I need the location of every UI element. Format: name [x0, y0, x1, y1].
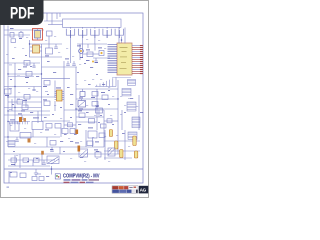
- wire: [29, 56, 62, 58]
- wire: [77, 43, 107, 45]
- resistor R22: [45, 44, 53, 56]
- connector J7: [122, 89, 131, 96]
- resistor R7: [43, 81, 50, 87]
- capacitor C19: [109, 130, 112, 137]
- wire: [8, 75, 34, 77]
- node G: [75, 108, 76, 109]
- IC U2: [117, 43, 132, 75]
- wire: [92, 138, 94, 147]
- wire: [104, 120, 118, 122]
- net labels: [7, 187, 10, 188]
- capacitor C1: [10, 28, 14, 37]
- resistor R18: [11, 158, 17, 165]
- wire: [60, 128, 62, 137]
- wire: [117, 80, 119, 154]
- resistor R2: [23, 61, 30, 68]
- resistor R11: [86, 50, 93, 57]
- resistor R33: [11, 39, 16, 43]
- connector J4: [103, 27, 111, 38]
- wire: [124, 28, 126, 44]
- transistor Q3: [78, 99, 86, 109]
- wire: [104, 140, 140, 142]
- resistor R4: [5, 89, 12, 96]
- resistor R28: [34, 158, 40, 162]
- resistor R5: [23, 95, 30, 101]
- wire: [8, 146, 104, 148]
- capacitor C15: [42, 160, 46, 164]
- wire: [8, 110, 50, 112]
- logo: [139, 186, 148, 194]
- node K: [7, 121, 8, 122]
- wire: [79, 44, 81, 60]
- node H: [7, 136, 8, 137]
- wire: [76, 116, 104, 118]
- resistor R27: [107, 119, 112, 123]
- transformer T2: [108, 148, 115, 156]
- wire: [8, 96, 55, 98]
- connector J9: [132, 117, 140, 128]
- wire: [124, 130, 126, 160]
- connector bank box: [63, 19, 122, 27]
- wire: [41, 154, 43, 165]
- node B: [7, 73, 8, 74]
- wire: [76, 108, 118, 110]
- resistor R30: [50, 141, 56, 146]
- fuse F1: [18, 114, 26, 123]
- resistor R20: [10, 172, 17, 177]
- diode D3: [28, 139, 31, 143]
- wire: [25, 99, 27, 108]
- wire: [4, 34, 30, 36]
- resistor R8: [43, 100, 50, 106]
- connector J2: [79, 27, 87, 38]
- wire: [59, 147, 61, 154]
- reference designators: [10, 55, 143, 177]
- transistor Q4: [77, 46, 83, 54]
- capacitor C8: [72, 61, 76, 65]
- node J: [14, 107, 15, 108]
- transistor Q1: [35, 29, 41, 41]
- subtitle text: [64, 182, 94, 183]
- wire: [64, 109, 104, 111]
- wire: [14, 155, 16, 166]
- wire: [104, 157, 132, 159]
- wire: [76, 121, 97, 123]
- wire: [93, 57, 110, 59]
- PDF badge: [0, 0, 44, 25]
- wire: [75, 67, 77, 130]
- connector J1: [66, 27, 74, 38]
- inductor L1: [10, 120, 19, 132]
- wire: [76, 98, 118, 100]
- capacitor C10: [62, 129, 75, 134]
- connector J8: [127, 102, 136, 111]
- wire: [51, 166, 53, 175]
- wire: [4, 107, 42, 109]
- resistor R10: [55, 124, 61, 129]
- capacitor C3: [54, 44, 58, 48]
- wire: [4, 29, 44, 31]
- IC U6: [88, 128, 97, 139]
- capacitor C11: [115, 141, 118, 149]
- capacitor C14: [134, 151, 137, 158]
- node I: [7, 110, 8, 111]
- wire: [4, 62, 40, 64]
- IC U5: [32, 118, 43, 130]
- wire: [42, 78, 71, 80]
- wire: [54, 81, 56, 98]
- resistor R1: [19, 33, 23, 39]
- pin numbers: [132, 45, 143, 74]
- wire: [4, 136, 60, 138]
- wire: [32, 160, 34, 166]
- wire: [96, 89, 98, 130]
- pin numbers: [108, 45, 118, 73]
- transformer T3: [79, 149, 88, 157]
- wire: [4, 114, 50, 116]
- resistor R24: [89, 119, 95, 124]
- capacitor C9: [94, 58, 98, 62]
- wire: [29, 43, 62, 45]
- resistor R9: [45, 124, 52, 131]
- wire: [94, 44, 96, 51]
- connector J5: [115, 27, 123, 38]
- resistor R34: [101, 124, 107, 128]
- bus taps: [8, 122, 30, 125]
- wire: [104, 130, 106, 160]
- resistor R23: [78, 111, 85, 118]
- wire: [46, 13, 48, 21]
- wire: [42, 120, 71, 122]
- wire: [76, 88, 118, 90]
- resistor R3: [25, 72, 32, 78]
- wire: [85, 130, 87, 147]
- wire: [29, 40, 31, 57]
- wire: [8, 159, 55, 161]
- transistor Q2: [79, 89, 85, 98]
- wire: [11, 99, 13, 111]
- wire: [46, 137, 48, 147]
- wire: [44, 20, 63, 22]
- red highlight box: [33, 29, 43, 41]
- resistor R6: [21, 105, 28, 111]
- subtitle text: [64, 179, 100, 181]
- net labels: [6, 31, 138, 162]
- resistor R32: [47, 31, 53, 44]
- wire: [8, 73, 42, 75]
- svg-text:PDF: PDF: [10, 5, 35, 23]
- capacitor C13: [120, 150, 123, 158]
- diode D6: [41, 151, 44, 155]
- resistor R31: [94, 150, 101, 158]
- revision marker: [55, 174, 60, 179]
- wire: [70, 38, 72, 63]
- wire: [19, 154, 21, 168]
- wire: [94, 38, 96, 44]
- svg-text:COMPVM(R2) - MV: COMPVM(R2) - MV: [63, 173, 100, 179]
- node C: [14, 86, 15, 87]
- connector J3: [91, 27, 99, 38]
- resistor R13: [92, 102, 98, 107]
- wire: [63, 61, 65, 128]
- resistor R14: [101, 92, 108, 100]
- resistor R19: [23, 158, 29, 162]
- capacitor C5: [32, 87, 35, 91]
- fuse F2: [75, 143, 80, 152]
- wire: [104, 150, 140, 152]
- connector J11: [8, 141, 15, 147]
- wire: [64, 124, 76, 126]
- capacitor C18: [50, 147, 54, 151]
- wire: [51, 13, 53, 25]
- resistor R12: [91, 92, 98, 98]
- value labels: [80, 57, 98, 63]
- capacitor C6: [20, 115, 23, 119]
- value labels: [9, 65, 20, 110]
- title block table: [112, 186, 138, 193]
- wire: [54, 101, 56, 111]
- wire: [41, 44, 43, 121]
- wire: [37, 111, 39, 123]
- wire: [121, 110, 123, 130]
- node F: [117, 98, 118, 99]
- wire: [82, 38, 84, 58]
- wire: [59, 13, 61, 17]
- connector J10: [128, 132, 137, 139]
- wire: [103, 110, 105, 147]
- wire: [4, 86, 42, 88]
- node L: [51, 168, 53, 170]
- wire: [4, 153, 120, 155]
- resistor R17: [87, 141, 99, 146]
- IC U4: [55, 90, 65, 101]
- node E: [41, 73, 42, 74]
- wire: [118, 28, 120, 44]
- diode D2: [98, 48, 104, 56]
- wire: [48, 24, 63, 26]
- resistor R25: [95, 106, 103, 114]
- wire: [32, 130, 34, 138]
- capacitor C16: [32, 174, 44, 181]
- diode D4: [75, 130, 78, 135]
- node A: [29, 43, 30, 44]
- transformer T1: [47, 156, 59, 164]
- wire: [95, 77, 131, 87]
- node D: [7, 96, 8, 97]
- capacitor C7: [65, 59, 70, 66]
- resistor R29: [17, 100, 23, 104]
- wire: [7, 26, 9, 148]
- resistor R16: [99, 133, 105, 138]
- wire: [42, 66, 78, 68]
- connector J12: [128, 80, 136, 86]
- wire: [8, 165, 50, 167]
- resistor R21: [20, 173, 26, 178]
- wire: [8, 171, 10, 183]
- value labels: [45, 88, 61, 92]
- wire: [87, 44, 89, 48]
- capacitor C4: [32, 63, 35, 67]
- wire: [98, 110, 100, 117]
- wire: [8, 101, 42, 103]
- resistor R15: [20, 133, 31, 139]
- wire: [56, 13, 58, 19]
- ground: [34, 169, 38, 176]
- wire: [138, 95, 140, 130]
- capacitor C17: [15, 137, 19, 141]
- svg-text:AG: AG: [140, 188, 147, 193]
- resistor R26: [68, 123, 73, 127]
- diode D5: [92, 61, 94, 63]
- wire: [4, 168, 143, 170]
- IC U3: [30, 45, 42, 53]
- capacitor C12: [133, 136, 136, 146]
- connector J6: [121, 37, 123, 44]
- wire: [14, 63, 16, 130]
- wire: [83, 53, 99, 55]
